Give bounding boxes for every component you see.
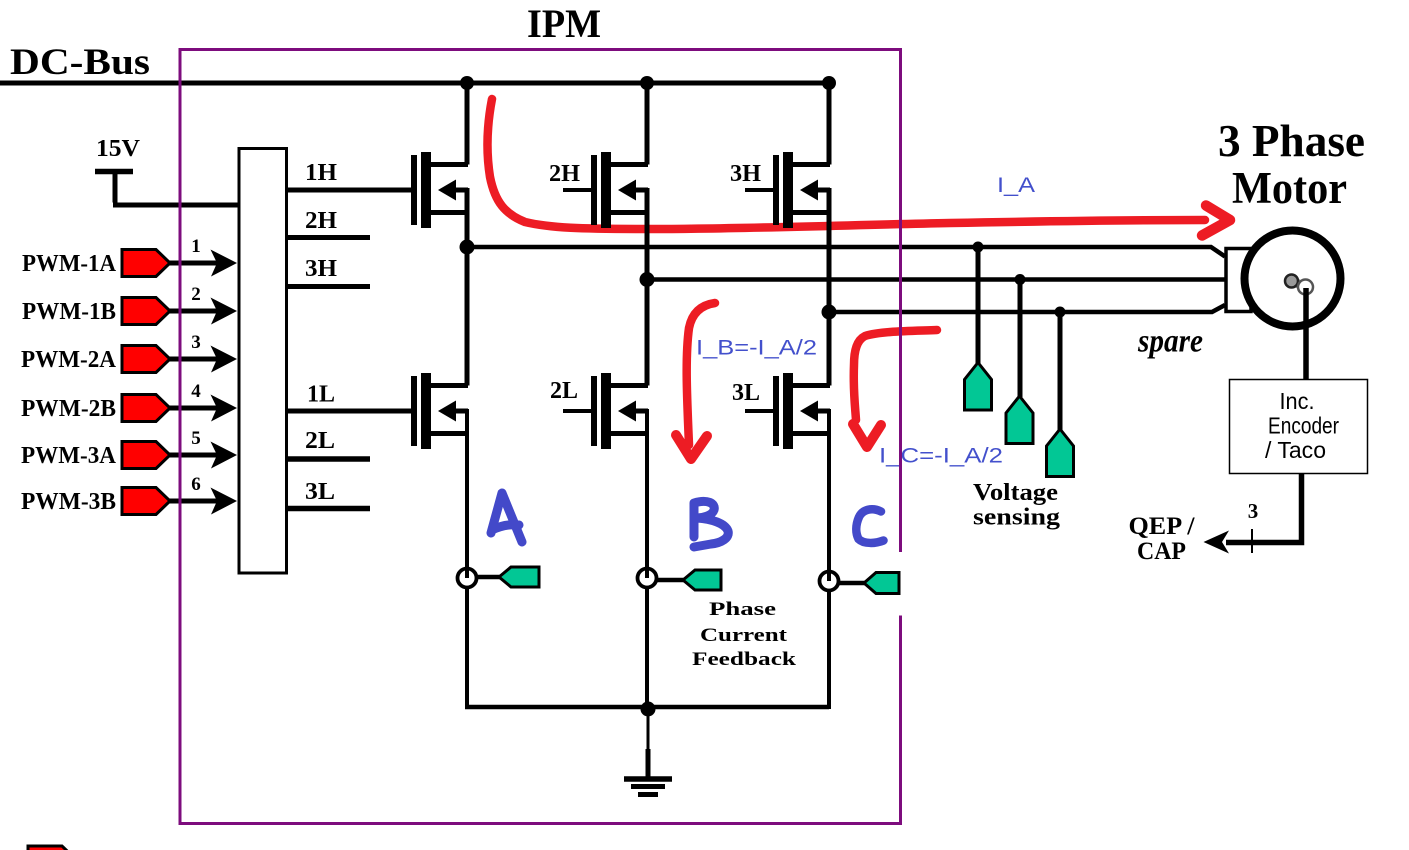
- svg-text:3H: 3H: [305, 256, 337, 282]
- svg-text:Voltage: Voltage: [973, 480, 1058, 506]
- svg-text:3H: 3H: [730, 161, 761, 187]
- svg-text:Phase: Phase: [709, 599, 776, 620]
- svg-text:2H: 2H: [549, 161, 580, 187]
- svg-text:2L: 2L: [550, 378, 578, 404]
- svg-text:PWM-1A: PWM-1A: [22, 251, 117, 277]
- svg-text:2: 2: [191, 284, 201, 305]
- svg-text:CAP: CAP: [1137, 538, 1186, 565]
- svg-text:1H: 1H: [305, 160, 337, 186]
- svg-text:3: 3: [191, 332, 201, 353]
- svg-text:Inc.: Inc.: [1280, 388, 1315, 414]
- svg-text:5: 5: [191, 428, 201, 449]
- svg-text:Encoder: Encoder: [1268, 413, 1339, 439]
- svg-text:3 Phase: 3 Phase: [1218, 116, 1365, 166]
- svg-text:IPM: IPM: [527, 1, 601, 46]
- svg-text:QEP /: QEP /: [1129, 513, 1196, 540]
- svg-text:6: 6: [191, 474, 201, 495]
- svg-text:Current: Current: [700, 625, 788, 646]
- svg-text:1L: 1L: [307, 382, 335, 408]
- svg-text:PWM-3B: PWM-3B: [21, 489, 116, 515]
- svg-text:3: 3: [1248, 499, 1259, 523]
- svg-text:2L: 2L: [305, 428, 335, 454]
- svg-text:15V: 15V: [96, 136, 141, 162]
- svg-text:spare: spare: [1137, 324, 1203, 360]
- svg-text:1: 1: [191, 236, 201, 257]
- svg-text:3L: 3L: [305, 479, 335, 505]
- svg-text:/ Taco: / Taco: [1265, 437, 1326, 463]
- svg-text:DC-Bus: DC-Bus: [10, 41, 150, 82]
- svg-text:sensing: sensing: [973, 505, 1060, 531]
- svg-text:PWM-2B: PWM-2B: [21, 396, 116, 422]
- svg-text:3L: 3L: [732, 380, 760, 406]
- svg-text:PWM-1B: PWM-1B: [22, 299, 116, 325]
- svg-text:PWM-2A: PWM-2A: [21, 347, 117, 373]
- svg-text:PWM-3A: PWM-3A: [21, 443, 117, 469]
- svg-text:4: 4: [191, 381, 201, 402]
- svg-text:I_C=-I_A/2: I_C=-I_A/2: [879, 445, 1003, 468]
- svg-text:I_A: I_A: [997, 174, 1035, 197]
- svg-text:I_B=-I_A/2: I_B=-I_A/2: [696, 337, 817, 360]
- svg-text:Feedback: Feedback: [692, 649, 797, 670]
- svg-text:2H: 2H: [305, 208, 337, 234]
- svg-text:Motor: Motor: [1232, 163, 1347, 213]
